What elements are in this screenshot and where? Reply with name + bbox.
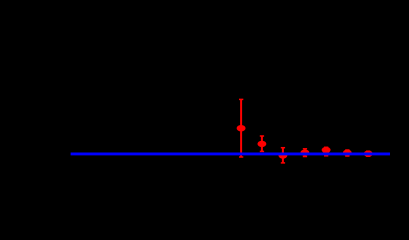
data point 4 error bar (303, 149, 307, 157)
data point 6 error bar (345, 150, 349, 156)
data point 2 error bar (260, 136, 264, 151)
data point 5 error bar (324, 147, 328, 156)
data point 3 error bar (281, 148, 285, 163)
data point 2 marker (257, 141, 266, 147)
data point 7 marker (364, 151, 373, 157)
data point 1 marker (237, 125, 246, 131)
model line (blue) (71, 152, 390, 155)
data point 4 marker (300, 150, 309, 156)
data point 7 error bar (366, 151, 370, 156)
data point 6 marker (343, 150, 352, 157)
data point 3 marker (278, 152, 287, 158)
data point 1 error bar (239, 99, 243, 157)
data point 5 marker (322, 147, 331, 153)
